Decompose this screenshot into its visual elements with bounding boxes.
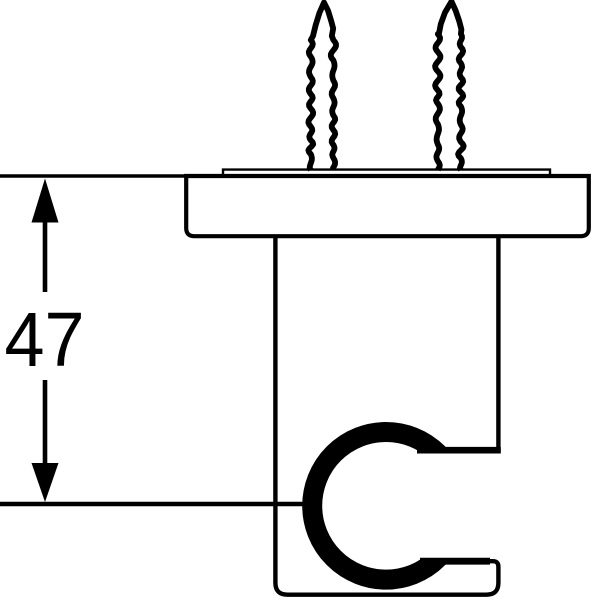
slot top line (417, 447, 501, 454)
gasket plate under screws (223, 170, 550, 176)
screw S2 (right) (435, 2, 464, 171)
dimension line upper segment (43, 200, 48, 292)
svg-text:47: 47 (5, 297, 85, 383)
body right upper edge (496, 236, 500, 452)
slot cut-out (420, 450, 502, 561)
wall reference line (top) (0, 174, 190, 178)
C-clip (holder ring) (312, 432, 460, 580)
dimension arrow down (32, 463, 59, 502)
dimension arrow up (32, 179, 59, 223)
bottom reference line (0, 502, 306, 506)
screw S1 (left) (308, 3, 336, 171)
slot bottom line (420, 558, 490, 565)
body left edge (275, 236, 498, 595)
dimension line lower segment (43, 380, 48, 470)
flange (wall plate) (186, 176, 589, 236)
